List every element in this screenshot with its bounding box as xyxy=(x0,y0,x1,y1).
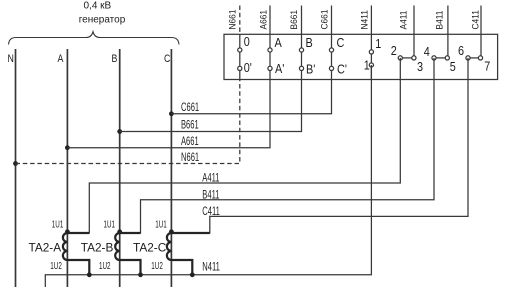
junction on phase B xyxy=(117,129,122,134)
svg-text:B': B' xyxy=(306,61,315,76)
wire column B411 top xyxy=(447,6,449,58)
terminal block box xyxy=(224,34,498,79)
svg-text:TA2-C: TA2-C xyxy=(133,241,167,255)
svg-text:B661: B661 xyxy=(288,10,299,30)
svg-text:7: 7 xyxy=(484,59,490,74)
junction on phase N xyxy=(13,161,18,166)
wire column A661 xyxy=(269,6,271,80)
junction TA2-B to N411 bus xyxy=(138,272,143,277)
junction on phase C xyxy=(169,111,174,116)
svg-text:C661: C661 xyxy=(319,10,330,30)
terminal 1 lower xyxy=(369,63,373,67)
wire column C661 xyxy=(331,6,333,80)
svg-text:N411: N411 xyxy=(202,261,220,274)
svg-text:TA2-A: TA2-A xyxy=(29,241,62,255)
wire C411 from terminal 6 to TA2-C secondary xyxy=(210,58,468,234)
svg-text:N: N xyxy=(8,53,14,65)
svg-text:A661: A661 xyxy=(181,136,199,149)
TA2-B lead 1U2 xyxy=(120,260,141,275)
svg-text:1U2: 1U2 xyxy=(151,259,163,271)
terminal B xyxy=(299,48,303,52)
TA2-A lead 1U1 xyxy=(67,232,89,234)
svg-text:6: 6 xyxy=(458,43,464,58)
wire A411 from terminal 2 to TA2-A secondary xyxy=(89,58,400,234)
TA2-C junction 1U1 xyxy=(169,229,174,234)
terminal A' xyxy=(268,66,272,70)
wire phase B xyxy=(119,49,121,287)
junction TA2-C to N411 bus xyxy=(190,272,195,277)
terminal O xyxy=(238,48,242,52)
terminal 4 and 5 with link xyxy=(434,57,447,59)
svg-text:1U2: 1U2 xyxy=(50,259,62,271)
svg-text:0: 0 xyxy=(244,34,250,49)
wire column N661 inside box xyxy=(239,34,241,79)
terminal C' xyxy=(329,66,333,70)
svg-text:генератор: генератор xyxy=(79,15,126,26)
svg-text:TA2-B: TA2-B xyxy=(81,241,114,255)
svg-text:B411: B411 xyxy=(434,11,445,30)
svg-text:C411: C411 xyxy=(470,10,481,29)
terminal B' xyxy=(299,66,303,70)
svg-text:1U1: 1U1 xyxy=(155,218,167,230)
svg-text:4: 4 xyxy=(424,44,430,59)
terminal O' xyxy=(238,66,242,70)
wire B411 from terminal 4 to TA2-B secondary xyxy=(141,58,435,234)
svg-text:A661: A661 xyxy=(258,10,269,30)
terminal C xyxy=(329,48,333,52)
TA2-A junction 1U1 xyxy=(65,229,70,234)
svg-text:1: 1 xyxy=(364,58,370,73)
svg-text:N411: N411 xyxy=(359,10,370,29)
junction TA2-A to N411 bus xyxy=(87,272,92,277)
svg-text:B: B xyxy=(306,35,313,50)
svg-text:0': 0' xyxy=(244,60,252,75)
TA2-B lead 1U1 xyxy=(120,232,141,234)
terminal 2 and 3 with link xyxy=(400,57,414,59)
brace generator group xyxy=(9,32,180,45)
wire column B661 xyxy=(301,6,303,80)
TA2-A lead 1U2 xyxy=(67,260,89,275)
wire column N661 dashed above box xyxy=(239,6,241,35)
svg-text:1: 1 xyxy=(375,36,381,51)
svg-text:3: 3 xyxy=(417,59,423,74)
TA2-C secondary coil xyxy=(167,233,172,260)
svg-text:C: C xyxy=(164,53,170,65)
wire phase C xyxy=(170,49,172,287)
wire phase N xyxy=(15,49,17,287)
wire phase A xyxy=(66,49,68,287)
svg-text:A: A xyxy=(275,35,282,50)
svg-text:B661: B661 xyxy=(181,119,199,132)
svg-text:N661: N661 xyxy=(227,10,238,30)
svg-text:1U1: 1U1 xyxy=(104,218,116,230)
TA2-C lead 1U1 xyxy=(171,232,209,234)
wire N411 common bus xyxy=(45,65,371,287)
wire C661 xyxy=(171,80,331,114)
wire B661 xyxy=(120,80,302,132)
svg-text:A: A xyxy=(58,53,64,65)
svg-text:C: C xyxy=(337,35,345,50)
terminal 1 upper xyxy=(369,50,373,54)
wire column C411 top xyxy=(480,6,482,58)
TA2-B junction 1U1 xyxy=(117,229,122,234)
wire column A411 top xyxy=(413,6,415,58)
svg-text:C661: C661 xyxy=(181,102,199,115)
svg-text:5: 5 xyxy=(450,59,456,74)
svg-text:0,4 кВ: 0,4 кВ xyxy=(84,1,112,12)
terminal 6 and 7 with link xyxy=(468,57,481,59)
TA2-A secondary coil xyxy=(63,233,68,260)
TA2-B secondary coil xyxy=(115,233,119,260)
svg-text:N661: N661 xyxy=(181,152,199,165)
wire A661 xyxy=(67,80,270,148)
svg-text:C': C' xyxy=(337,61,347,76)
wire column N411 xyxy=(370,6,372,80)
svg-text:A': A' xyxy=(275,61,284,76)
junction on phase A xyxy=(65,145,70,150)
wire N661 dashed xyxy=(16,80,240,164)
svg-text:1U2: 1U2 xyxy=(99,259,111,271)
svg-text:A411: A411 xyxy=(398,11,409,30)
svg-text:2: 2 xyxy=(391,43,397,58)
terminal A xyxy=(268,48,272,52)
svg-text:1U1: 1U1 xyxy=(52,218,64,230)
svg-text:B: B xyxy=(112,53,118,65)
TA2-C lead 1U2 xyxy=(171,260,192,275)
